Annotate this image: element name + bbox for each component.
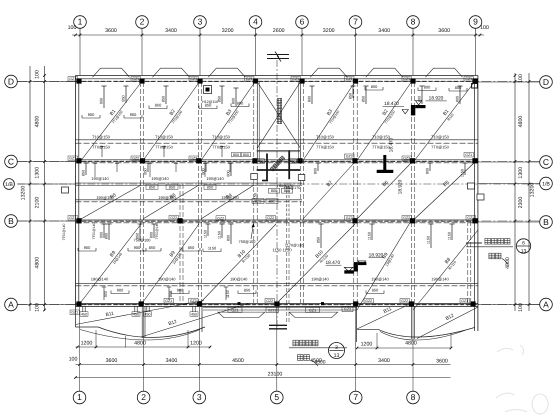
stub below lower beam 900 (103, 287, 105, 300)
C row boxed 800 a (232, 152, 241, 157)
corner box below D9 column (472, 84, 478, 89)
level flag G1 (411, 105, 415, 115)
column label GZ2 (169, 216, 179, 221)
level triangle G1b (416, 101, 422, 106)
right tick 1B inner (514, 183, 517, 186)
svg-text:710@150: 710@150 (431, 135, 450, 140)
svg-text:GZ1: GZ1 (71, 311, 78, 315)
porch dim extension L1 (95, 330, 97, 348)
mid band stub 800 (230, 163, 232, 176)
left porch diagonal B11 (76, 301, 205, 325)
boxed dim 850 band (146, 184, 158, 189)
porch dim extension L3 (125, 336, 127, 348)
middle porch boxed GZ1 b (306, 307, 320, 312)
svg-text:GZ1: GZ1 (231, 308, 238, 312)
bottom dim tick (354, 363, 357, 366)
svg-text:B11: B11 (383, 306, 393, 315)
left dim chain line outer (29, 66, 31, 311)
row C beam dashes (76, 160, 478, 162)
svg-text:800: 800 (202, 168, 206, 174)
top tick grid 8 (412, 34, 415, 37)
svg-text:1200: 1200 (361, 341, 373, 347)
grid line 4 vertical (255, 36, 257, 76)
porch column drop (82, 307, 84, 312)
stub below C (116, 163, 118, 172)
canopy trapezoid at x444 (426, 68, 463, 77)
grid line 3 vertical (199, 36, 201, 76)
porch dim tick (187, 346, 190, 349)
right tick D outer (528, 80, 531, 83)
svg-text:GZ2: GZ2 (267, 216, 274, 220)
grid line 2 vertical (141, 36, 143, 76)
svg-text:850: 850 (349, 93, 353, 99)
grid row D line (17, 81, 539, 83)
middle porch black mark b (321, 302, 324, 305)
right tick top (514, 74, 517, 77)
left tick 1B outer (29, 183, 32, 186)
svg-text:450: 450 (191, 312, 197, 316)
note underline right (466, 246, 513, 248)
svg-text:13200: 13200 (530, 183, 536, 198)
row line A left lead (17, 304, 75, 306)
row C beam top (76, 159, 478, 161)
column label GZ2 (131, 156, 141, 161)
stair boxed 450 b (289, 159, 297, 164)
beam y200 top left half (76, 199, 303, 201)
opening stub 850 (352, 86, 354, 98)
right tick D inner (514, 80, 517, 83)
canopy trapezoid at x171 (153, 68, 190, 77)
svg-text:GZ1: GZ1 (461, 299, 468, 303)
bracket low 900 (78, 250, 96, 252)
note line right (466, 242, 482, 244)
left tick bottom (43, 309, 46, 312)
mid band stub 800 (205, 163, 207, 172)
porch beam at grid 2 (141, 307, 143, 339)
break symbol bottom (269, 324, 287, 326)
column label GZ1 (345, 77, 355, 82)
right porch diagonal B12 (417, 307, 478, 339)
right porch diagonal B11 (357, 302, 414, 329)
column label GZ1 (466, 216, 476, 221)
column label GZ2 (364, 299, 374, 304)
svg-text:3: 3 (335, 345, 338, 351)
svg-text:3: 3 (197, 392, 202, 402)
column GZ at D x142 (139, 78, 144, 83)
left tick B inner (43, 220, 46, 223)
svg-text:GZ3: GZ3 (346, 155, 353, 159)
svg-text:7170@130: 7170@130 (285, 244, 304, 248)
grid bubble 8 stem (412, 28, 414, 35)
right porch arc inner (380, 330, 466, 340)
grid bubble 2 stem (141, 28, 143, 35)
svg-text:4800: 4800 (134, 340, 146, 346)
svg-text:900: 900 (100, 232, 104, 238)
stub below lower beam 1150 (225, 287, 227, 300)
beam vertical x180b (182, 184, 184, 303)
lower band stub 800 (108, 224, 110, 240)
svg-text:6: 6 (522, 241, 525, 247)
svg-text:800: 800 (456, 96, 460, 102)
svg-text:3600: 3600 (438, 28, 450, 34)
grid bubble 9 stem (475, 28, 477, 35)
svg-text:710@150: 710@150 (92, 135, 111, 140)
svg-text:190@140: 190@140 (206, 176, 224, 181)
svg-text:2300: 2300 (518, 197, 524, 209)
grid bubble 1 stem (79, 28, 81, 35)
svg-text:4800: 4800 (518, 116, 524, 128)
mid band stub 850 (147, 163, 149, 172)
note underline bottom (289, 347, 347, 349)
stair landing line b (257, 151, 301, 153)
svg-text:3: 3 (198, 17, 203, 27)
bracket dim 900 (124, 117, 142, 119)
svg-text:3200: 3200 (323, 28, 335, 34)
column GZ at D x200 (197, 78, 202, 83)
left tick D outer (29, 80, 32, 83)
svg-text:GZ1: GZ1 (292, 77, 299, 81)
svg-text:1150: 1150 (368, 232, 372, 240)
stub below C (229, 163, 231, 172)
lower band stub 850 (139, 224, 141, 240)
column GZ at C x300 (297, 158, 302, 163)
svg-text:850: 850 (122, 95, 126, 101)
top tick grid 6 (301, 34, 304, 37)
stair flight thick vertical 2 (288, 151, 290, 179)
note text right (485, 239, 491, 245)
column label GZ1 (68, 216, 78, 221)
svg-text:900: 900 (104, 291, 108, 297)
svg-text:900: 900 (130, 112, 137, 117)
svg-text:GZ1: GZ1 (246, 77, 253, 81)
column label GZ1 (164, 299, 174, 304)
svg-text:850: 850 (162, 96, 166, 102)
left wall inner (78, 79, 80, 307)
column GZ at A x355.7 (353, 301, 358, 306)
svg-text:450: 450 (81, 312, 87, 316)
svg-text:190@150: 190@150 (96, 195, 114, 200)
svg-text:1150: 1150 (226, 290, 230, 298)
column GZ at B x180 (177, 218, 182, 223)
svg-text:190@140: 190@140 (371, 276, 389, 281)
svg-text:1300: 1300 (518, 167, 524, 179)
column GZ at C x198.8 (196, 158, 201, 163)
white box symbol right (468, 183, 475, 189)
svg-text:900: 900 (134, 245, 141, 250)
svg-text:850: 850 (317, 237, 321, 243)
right dim chain line outer (528, 73, 530, 311)
svg-text:800: 800 (243, 153, 249, 157)
svg-text:710@150: 710@150 (372, 135, 391, 140)
beam column line 4 left edge (253, 82, 255, 303)
svg-text:800: 800 (255, 199, 262, 204)
column GZ at D x302 (299, 78, 304, 83)
svg-text:850: 850 (218, 96, 222, 102)
row line B left lead (17, 220, 75, 222)
column GZ at A x473 (470, 301, 475, 306)
beam column line 3 left edge (197, 82, 199, 303)
column label GZ1 (68, 156, 78, 161)
svg-text:13: 13 (521, 248, 527, 254)
row 1/B beam bottom (76, 185, 303, 187)
bracket dim 800 (449, 90, 467, 92)
svg-text:7T0@150: 7T0@150 (155, 145, 173, 150)
grid bubble 3 (194, 16, 207, 29)
bottom overall dim line (76, 377, 451, 379)
bottom grid bubble 2 (137, 391, 150, 404)
svg-text:800: 800 (150, 232, 154, 238)
stair boxed 800 b (282, 188, 293, 193)
grid line 8 vertical (412, 36, 414, 76)
bottom dim tick (142, 363, 145, 366)
column GZ at C x142.5 (140, 158, 145, 163)
beam column line 4 right edge (256, 82, 258, 303)
grid bubble 1 (74, 16, 87, 29)
column GZ at C x255 (252, 158, 257, 163)
leader arrow at B (251, 225, 253, 239)
slab diagonal middle B5 bay1 (81, 185, 141, 219)
stub below C (149, 163, 151, 177)
stub below C (94, 163, 96, 177)
note text right 2 (489, 253, 495, 259)
lower band stub 1150 (221, 224, 223, 238)
bracket low 850 (182, 250, 200, 252)
top tick right end (479, 34, 482, 37)
beam vertical x180 (179, 184, 181, 303)
left porch boxed 450 (144, 312, 152, 317)
right tick C inner (514, 160, 517, 163)
svg-text:7T0@150: 7T0@150 (212, 145, 230, 150)
svg-text:GZ22: GZ22 (268, 308, 277, 312)
boxed dim 850 band (204, 185, 216, 190)
bottom grid bubble 2 stem (143, 307, 145, 391)
column label GZ1 (68, 77, 78, 82)
svg-text:190@150: 190@150 (158, 195, 176, 200)
note leader bottom (311, 360, 318, 366)
svg-text:800: 800 (227, 170, 231, 176)
column GZ at D x413 (410, 78, 415, 83)
row line D right lead (478, 81, 540, 83)
bottom dim tick (412, 363, 415, 366)
top wall outer line (76, 75, 478, 77)
svg-text:GZ2: GZ2 (266, 299, 273, 303)
left porch boxed 450 (80, 312, 88, 317)
grid row B line (17, 220, 539, 222)
C row boxed 800 b (242, 152, 251, 157)
porch column drop (192, 307, 194, 312)
bracket low 850 (366, 293, 384, 295)
left porch left edge (75, 307, 77, 328)
middle porch boxed GZ1 a (228, 307, 242, 312)
top tick grid 9 (474, 34, 477, 37)
level flag G3 (354, 262, 358, 271)
level underline G1b (425, 100, 446, 102)
bottom grid bubble 8 stem (412, 307, 414, 391)
row line A right lead (478, 304, 540, 306)
grid row A line (17, 304, 539, 306)
mid beam lower bottom (76, 285, 478, 287)
svg-text:1150: 1150 (208, 245, 217, 250)
left tick top wall (43, 74, 46, 77)
svg-text:7T50@140: 7T50@140 (62, 223, 66, 240)
svg-text:18.920: 18.920 (398, 179, 404, 194)
svg-text:800: 800 (424, 84, 431, 89)
svg-text:850: 850 (207, 185, 214, 190)
stairwell left wall (256, 82, 258, 161)
opening stub 850 (165, 86, 167, 104)
svg-text:7: 7 (353, 392, 358, 402)
mid band stub 1150 (464, 163, 466, 175)
right porch arc outer (378, 328, 475, 338)
stair boxed 800 a (269, 188, 280, 193)
svg-text:190@140: 190@140 (230, 276, 248, 281)
row bubble C right (540, 156, 553, 169)
svg-text:850: 850 (169, 291, 173, 297)
slab diagonal middle B5 bay6 (415, 163, 475, 219)
svg-text:9: 9 (473, 17, 478, 27)
mid beam upper bottom (76, 142, 478, 144)
bracket low 850 (238, 293, 256, 295)
svg-text:800: 800 (237, 100, 244, 105)
right porch left edge (356, 307, 358, 343)
svg-text:1150: 1150 (218, 231, 222, 239)
svg-text:B6: B6 (381, 179, 390, 188)
grid bubble 9 (469, 16, 482, 29)
row A beam bottom (76, 305, 478, 307)
lower band stub 800 (230, 224, 232, 244)
svg-text:4800: 4800 (505, 257, 511, 269)
svg-text:850: 850 (149, 184, 156, 189)
row bubble 1/B left (4, 179, 15, 190)
column label GZ3 (402, 156, 412, 161)
column label GZ2 (265, 299, 275, 304)
row line D left lead (17, 81, 75, 83)
svg-text:D: D (8, 76, 14, 86)
svg-text:GZ1: GZ1 (467, 216, 474, 220)
top tick grid 2 (141, 34, 144, 37)
column GZ at C x412.5 (410, 158, 415, 163)
svg-text:900: 900 (84, 245, 91, 250)
bottom grid bubble 5 (271, 391, 284, 404)
svg-text:450: 450 (258, 159, 264, 163)
svg-text:7: 7 (353, 17, 358, 27)
left wall outer (75, 76, 77, 307)
porch dim tick R (450, 347, 453, 350)
bottom dim tick (276, 363, 279, 366)
svg-text:A: A (543, 299, 549, 309)
top tick grid 7 (354, 34, 357, 37)
opening stub 850 (221, 86, 223, 104)
stub below lower beam 850 (168, 287, 170, 300)
canopy trapezoid at x226.8 (208, 68, 245, 77)
bracket dim 850 (199, 108, 217, 110)
svg-text:GZ1: GZ1 (309, 308, 316, 312)
level underline G3 (369, 257, 384, 259)
bottom grid bubble 5 stem (276, 307, 278, 391)
column GZ at A x411.4 (409, 301, 414, 306)
svg-text:100: 100 (69, 357, 78, 363)
lower band stub 1150 (430, 224, 432, 248)
svg-text:6: 6 (300, 17, 305, 27)
top tick left end (74, 34, 77, 37)
svg-text:710@150: 710@150 (155, 135, 174, 140)
row B beam top (76, 219, 478, 221)
svg-text:850: 850 (371, 84, 378, 89)
mid band stub 800 (317, 163, 319, 171)
column GZ at B x355 (352, 218, 357, 223)
column label GZ1 (464, 153, 474, 158)
right dim chain line inner (514, 73, 516, 311)
svg-text:190@140: 190@140 (158, 276, 176, 281)
svg-text:GZ1: GZ1 (132, 77, 139, 81)
bottom dim tick (198, 363, 201, 366)
stair landing beam thick (257, 169, 300, 171)
boxed dim 800 band (266, 199, 278, 204)
porch dim line right (357, 347, 451, 349)
svg-text:GZ1: GZ1 (465, 77, 472, 81)
svg-text:7T50@140: 7T50@140 (155, 222, 159, 239)
svg-text:GZ1: GZ1 (69, 216, 76, 220)
svg-text:1: 1 (78, 17, 83, 27)
porch beam at grid 8 (411, 307, 413, 340)
porch column drop (146, 307, 148, 312)
svg-text:900: 900 (100, 98, 104, 104)
svg-text:GZ1: GZ1 (69, 157, 76, 161)
column label GZ1 (291, 77, 301, 82)
svg-text:4500: 4500 (232, 358, 244, 364)
svg-text:B: B (8, 216, 14, 226)
right wall outer (477, 76, 479, 332)
top tick grid 4 (254, 34, 257, 37)
svg-text:GZ2: GZ2 (401, 299, 408, 303)
beam y200 bottom left half (76, 201, 303, 203)
right tick C outer (528, 160, 531, 163)
right tick B outer (528, 220, 531, 223)
grid row C line (17, 161, 539, 163)
svg-text:T90@170: T90@170 (284, 186, 301, 190)
break symbol top (267, 54, 289, 56)
middle porch line bottom (203, 309, 357, 311)
svg-text:800: 800 (269, 199, 276, 204)
svg-text:1200: 1200 (81, 340, 93, 346)
svg-text:450: 450 (145, 312, 151, 316)
lower band stub 1150 (207, 224, 209, 236)
svg-text:850: 850 (82, 170, 86, 176)
right tick B inner (514, 220, 517, 223)
left tick B outer (29, 220, 32, 223)
column label GZ1 (189, 77, 199, 82)
svg-text:800: 800 (426, 168, 430, 174)
svg-text:4800: 4800 (35, 116, 41, 128)
bottom grid bubble 7 stem (355, 307, 357, 391)
opening stub 850 (365, 86, 367, 104)
grid bubble 2 (136, 16, 149, 29)
canopy trapezoid at x111 (93, 68, 130, 77)
svg-text:800: 800 (232, 98, 236, 104)
lower band stub 800 (153, 224, 155, 238)
column GZ at D x475 (472, 78, 477, 83)
slab diagonal upper B2 bay5 (357, 83, 411, 161)
mid band stub 800 (429, 163, 431, 171)
right wall inner (474, 79, 476, 331)
opening stub 800 (421, 86, 423, 104)
row line B right lead (478, 221, 540, 223)
grid bubble 7 stem (355, 28, 357, 35)
svg-text:3400: 3400 (378, 358, 390, 364)
svg-text:190@140: 190@140 (431, 276, 449, 281)
right porch ledge stub (357, 328, 378, 330)
beam column line 6 right edge (303, 82, 305, 303)
